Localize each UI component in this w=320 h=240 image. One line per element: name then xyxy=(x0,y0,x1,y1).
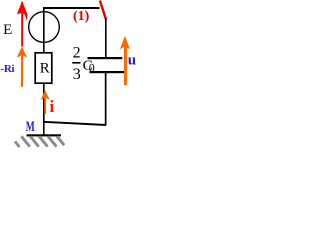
fraction bar xyxy=(72,62,80,64)
svg-text:(1): (1) xyxy=(73,9,90,24)
capacitor top plate xyxy=(88,57,123,59)
svg-text:-Ri: -Ri xyxy=(1,63,15,75)
svg-text:3: 3 xyxy=(73,66,81,83)
svg-text:0: 0 xyxy=(89,60,95,74)
switch blade (red) xyxy=(100,1,106,20)
svg-text:R: R xyxy=(40,61,50,77)
svg-text:i: i xyxy=(50,97,55,116)
wire bottom link to capacitor branch xyxy=(43,122,106,125)
svg-text:M: M xyxy=(26,119,35,135)
arrow E (red) xyxy=(17,1,28,47)
resistor R box xyxy=(35,53,52,83)
wire vertical source branch xyxy=(43,7,45,53)
svg-text:u: u xyxy=(128,52,136,68)
source circle G xyxy=(29,12,60,43)
arrow -Ri (orange) xyxy=(17,47,27,87)
wire below capacitor xyxy=(105,73,107,126)
wire switch to capacitor xyxy=(105,18,107,58)
capacitor bottom plate xyxy=(90,71,125,73)
ground bar M xyxy=(27,134,62,136)
arrow i (orange) xyxy=(41,90,50,114)
ground hatch xyxy=(15,136,64,147)
wire below resistor xyxy=(43,84,45,135)
wire top horizontal xyxy=(43,7,100,9)
arrow u (orange) xyxy=(120,36,130,85)
svg-text:2: 2 xyxy=(73,45,81,62)
svg-text:E: E xyxy=(3,22,12,38)
